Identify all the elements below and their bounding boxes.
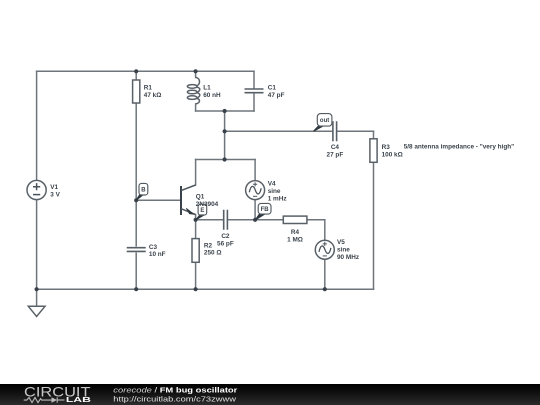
svg-text:C3: C3 bbox=[149, 244, 158, 251]
svg-text:1 MΩ: 1 MΩ bbox=[287, 236, 303, 243]
svg-text:V4: V4 bbox=[268, 181, 276, 188]
svg-text:C1: C1 bbox=[268, 84, 277, 91]
svg-text:L1: L1 bbox=[203, 84, 211, 91]
svg-text:1 mHz: 1 mHz bbox=[268, 195, 287, 202]
svg-text:R1: R1 bbox=[144, 84, 153, 91]
svg-text:10 nF: 10 nF bbox=[149, 251, 166, 258]
svg-text:V5: V5 bbox=[337, 239, 345, 246]
svg-text:27 pF: 27 pF bbox=[327, 151, 344, 158]
svg-text:sine: sine bbox=[268, 188, 281, 195]
svg-text:R4: R4 bbox=[291, 229, 300, 236]
svg-text:47 pF: 47 pF bbox=[268, 92, 285, 99]
svg-text:E: E bbox=[200, 208, 204, 214]
svg-text:100 kΩ: 100 kΩ bbox=[382, 151, 403, 158]
svg-text:56 pF: 56 pF bbox=[217, 240, 234, 247]
svg-text:90 MHz: 90 MHz bbox=[337, 254, 359, 261]
svg-text:sine: sine bbox=[337, 246, 350, 253]
svg-text:V1: V1 bbox=[50, 184, 58, 191]
svg-text:3 V: 3 V bbox=[50, 192, 60, 199]
svg-text:R3: R3 bbox=[382, 144, 391, 151]
svg-text:Q1: Q1 bbox=[196, 194, 205, 201]
svg-text:250 Ω: 250 Ω bbox=[204, 250, 222, 257]
svg-text:2N3904: 2N3904 bbox=[196, 201, 219, 208]
svg-text:5/8 antenna impedance - "very: 5/8 antenna impedance - "very high" bbox=[404, 143, 514, 150]
svg-text:FB: FB bbox=[261, 207, 270, 213]
svg-text:60 nH: 60 nH bbox=[203, 92, 221, 99]
svg-text:R2: R2 bbox=[204, 242, 213, 249]
svg-text:B: B bbox=[141, 188, 146, 194]
svg-text:47 kΩ: 47 kΩ bbox=[144, 92, 162, 99]
svg-text:C2: C2 bbox=[221, 233, 230, 240]
svg-text:out: out bbox=[320, 118, 329, 124]
svg-text:C4: C4 bbox=[331, 144, 340, 151]
